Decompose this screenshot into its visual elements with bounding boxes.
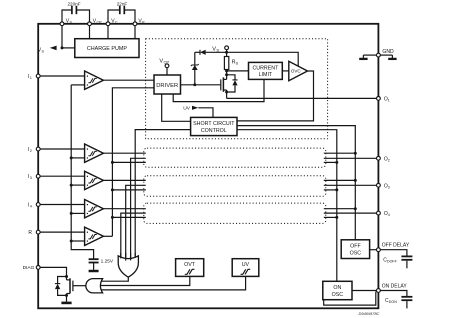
ref stub I1	[71, 84, 84, 86]
capacitor 220nF	[62, 1, 90, 22]
ON oscillator block	[323, 281, 352, 299]
wire output O1	[227, 97, 377, 99]
wire VC-chargepump	[107, 26, 109, 39]
capacitor 22nF	[108, 1, 135, 22]
wire VS to OVC sense	[227, 52, 299, 66]
wire output O4	[324, 212, 377, 214]
wire output O2	[324, 157, 377, 159]
wire reset bus into channel-2	[111, 161, 146, 164]
svg-text:S: S	[216, 48, 219, 53]
comparator A1 input I1	[28, 71, 104, 89]
diag MOSFET Q2 open drain	[65, 277, 73, 302]
ref stub R	[70, 240, 85, 243]
wire I1 output to driver	[103, 79, 154, 81]
svg-text:S: S	[236, 61, 239, 66]
wire R output to reset bus	[103, 235, 112, 237]
node VC top	[106, 18, 118, 25]
pin GND	[377, 49, 395, 57]
svg-text:C: C	[115, 21, 118, 25]
wire channel-2 to bus B	[324, 161, 337, 163]
svg-text:UV: UV	[242, 262, 250, 268]
wire SCC to ON-osc bus B	[237, 130, 338, 282]
svg-text:LIMIT: LIMIT	[259, 72, 273, 78]
comparator A4 input I4	[28, 200, 104, 218]
wire channel-3 status to diag gate	[126, 185, 146, 257]
AND gate diag summing (points down)	[118, 256, 138, 277]
driver block U-DRV	[154, 75, 181, 94]
diode VS clamp	[195, 50, 227, 55]
pin DIAG	[23, 265, 40, 271]
wire channel-3 to bus A	[324, 179, 356, 181]
resistor RS sense	[224, 52, 238, 72]
pin ON DELAY	[377, 284, 408, 293]
wire SCC status out (channel 1)	[135, 130, 190, 257]
svg-text:1.25V: 1.25V	[101, 258, 114, 264]
svg-text:ON DELAY: ON DELAY	[382, 284, 408, 290]
drawing code label	[359, 311, 380, 316]
wire channel-4 to bus A	[324, 208, 356, 210]
wire channel-4 to bus B	[324, 216, 337, 218]
channel-3 dashed enclosure	[144, 176, 326, 197]
svg-text:1: 1	[388, 98, 390, 102]
svg-text:OSC: OSC	[332, 292, 344, 298]
ref stub I4	[70, 212, 85, 215]
wire DIAG pin to drain	[40, 267, 68, 278]
comparator OVC	[289, 61, 308, 80]
svg-text:OVC: OVC	[291, 69, 302, 74]
svg-text:2: 2	[30, 149, 32, 153]
comparator A5 input R	[28, 227, 103, 245]
svg-text:DOFF: DOFF	[387, 260, 398, 264]
svg-text:OFF DELAY: OFF DELAY	[382, 243, 410, 249]
svg-text:UV: UV	[183, 106, 191, 112]
svg-text:220nF: 220nF	[67, 1, 80, 6]
wire OR gate output to diag MOSFET gate	[74, 285, 87, 287]
ground symbol diag MOSFET	[61, 302, 71, 305]
svg-text:1: 1	[30, 76, 32, 80]
IC outer boundary frame	[38, 24, 378, 309]
wire ON osc bottom loop	[324, 292, 376, 306]
wire I3 output into channel box	[103, 179, 145, 181]
wire channel-2 to bus A	[324, 152, 356, 154]
pin O1	[377, 96, 390, 102]
wire output O3	[324, 184, 377, 186]
wire I2 output into channel box	[103, 152, 145, 154]
svg-text:3: 3	[388, 185, 390, 189]
wire OVT to OR gate	[97, 276, 190, 285]
VS supply arrow label	[38, 46, 57, 54]
channel-4 dashed enclosure	[144, 203, 326, 223]
svg-text:3: 3	[30, 176, 32, 180]
wire SCC to OFF-osc bus A	[237, 126, 357, 240]
svg-text:4: 4	[388, 213, 390, 217]
charge pump U-CP	[75, 39, 139, 58]
svg-text:GND: GND	[382, 49, 394, 55]
pin O3	[377, 183, 390, 189]
wire channel-3 to bus B	[324, 189, 337, 191]
current limit block U-CL	[249, 62, 283, 79]
svg-text:OSC: OSC	[350, 251, 362, 257]
wire ON osc to ON DELAY pin	[352, 290, 377, 292]
wire AND gate output to OR gate	[100, 277, 129, 281]
svg-text:CHARGE PUMP: CHARGE PUMP	[87, 46, 128, 52]
wire channel status into AND gate (cover)	[121, 253, 135, 261]
wire reset bus into channel-3	[111, 188, 146, 191]
wire driver to short-circuit control	[162, 94, 191, 121]
terminal VCP (driver)	[159, 58, 169, 75]
wire OVC output to short-circuit control	[237, 71, 314, 121]
pin OFF DELAY	[377, 243, 410, 252]
wire VCP-chargepump	[89, 26, 91, 39]
OFF oscillator block	[341, 240, 369, 259]
capacitor CDON	[380, 291, 412, 309]
wire RS to current limit	[227, 70, 249, 72]
node VS top	[60, 18, 72, 25]
channel-2 dashed enclosure	[144, 148, 326, 167]
wire reset bus into channel-4	[111, 216, 146, 219]
comparator A2 input I2	[28, 144, 104, 162]
short circuit control block U-SCC	[191, 117, 237, 135]
svg-text:ON: ON	[333, 285, 341, 291]
svg-text:4: 4	[30, 204, 32, 208]
wire driver gate	[181, 83, 221, 86]
svg-text:CURRENT: CURRENT	[252, 65, 279, 71]
svg-text:CP: CP	[97, 21, 103, 25]
pin O2	[377, 156, 390, 162]
pin O4	[377, 211, 390, 217]
channel-1 dotted enclosure	[146, 39, 328, 139]
svg-text:R: R	[28, 230, 32, 236]
UV signal arrow	[183, 106, 213, 118]
power MOSFET Q1	[221, 77, 228, 98]
capacitor CDOFF	[380, 250, 412, 269]
wire channel-2 status to diag gate	[131, 158, 146, 257]
svg-text:OVT: OVT	[184, 262, 196, 268]
ref stub I3	[70, 184, 85, 187]
wire reset bus to driver	[112, 88, 154, 237]
node VCP top	[88, 18, 102, 25]
comparator A3 input I3	[28, 171, 104, 189]
ground symbol internal	[359, 55, 376, 59]
1.25V reference rail	[71, 85, 93, 259]
svg-text:DON: DON	[389, 300, 397, 304]
node VP top	[133, 18, 145, 25]
wire channel-4 status to diag gate	[121, 213, 146, 257]
wire current limit to OVC	[282, 70, 289, 72]
ref stub I2	[70, 156, 85, 159]
body diode D1	[227, 75, 238, 92]
svg-text:OFF: OFF	[350, 244, 361, 250]
wire OFF osc to OFF DELAY pin	[370, 249, 377, 251]
svg-text:22nF: 22nF	[117, 1, 128, 6]
capacitor 1.25V reference	[89, 258, 114, 271]
wire VP-chargepump	[134, 26, 136, 39]
wire UV to OR gate	[100, 276, 246, 290]
wire current limit feedback to driver	[173, 79, 264, 101]
svg-text:D94IN978C: D94IN978C	[359, 311, 380, 316]
svg-text:CONTROL: CONTROL	[201, 128, 227, 134]
svg-text:DIAG: DIAG	[23, 265, 35, 271]
wire drain + body diode tap	[225, 71, 228, 80]
svg-text:2: 2	[388, 158, 390, 162]
terminal VS (channel 1)	[212, 46, 228, 54]
diode diag clamp	[55, 277, 67, 296]
wire I4 output into channel box	[103, 208, 145, 210]
wire VS stub + junction	[61, 26, 75, 50]
zener diode gate clamp	[191, 52, 199, 85]
svg-text:SHORT CIRCUIT: SHORT CIRCUIT	[193, 121, 235, 127]
OVT thermal block U-OVT	[176, 259, 204, 277]
ground symbol external	[380, 55, 396, 59]
svg-text:DRIVER: DRIVER	[156, 83, 178, 89]
UV lockout block U-UV	[232, 259, 259, 277]
OR gate diag (points left)	[86, 279, 103, 293]
